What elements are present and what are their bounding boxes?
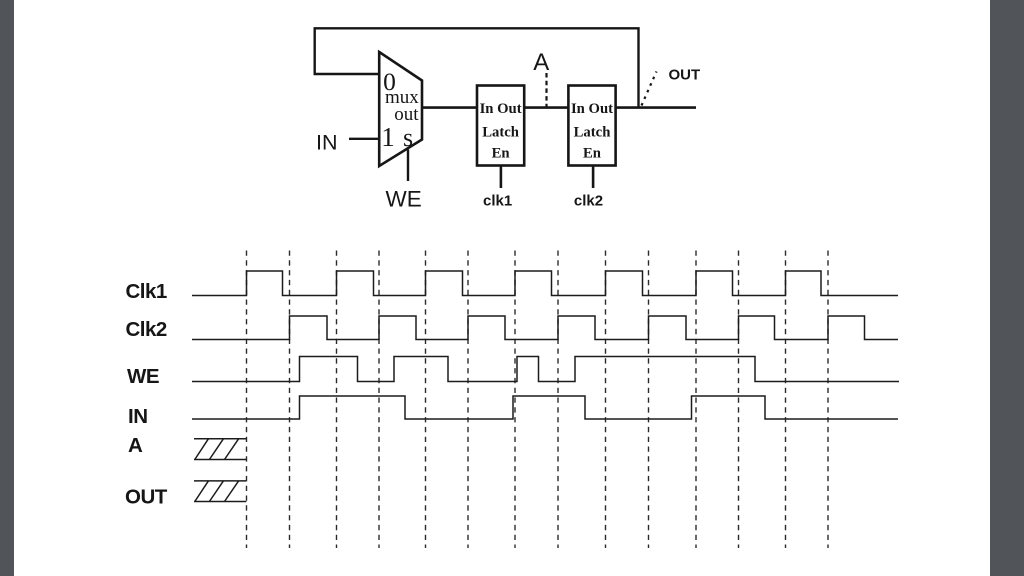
svg-text:En: En <box>492 146 510 162</box>
svg-text:In Out: In Out <box>571 101 613 117</box>
label clk1 <box>483 193 512 210</box>
svg-text:Latch: Latch <box>574 125 611 141</box>
wire latch2 Out to OUT <box>616 106 696 109</box>
mux pin label 0 <box>383 67 396 96</box>
svg-text:OUT: OUT <box>669 67 701 84</box>
wire feedback loop (OUT to mux input 0) <box>315 28 639 107</box>
latch U2 text In Out Latch En <box>480 101 522 162</box>
label Clk1 <box>126 280 167 303</box>
label Clk2 <box>126 318 167 341</box>
label A <box>128 434 143 457</box>
label OUT (node) <box>669 67 701 84</box>
left viewer bar <box>0 0 14 576</box>
wire IN to mux input 1 <box>349 138 379 140</box>
svg-text:clk1: clk1 <box>483 193 512 210</box>
label IN <box>316 131 338 155</box>
svg-text:Clk2: Clk2 <box>126 318 167 341</box>
svg-text:IN: IN <box>316 131 338 155</box>
mux pin label s <box>403 123 413 152</box>
latch U2 box <box>477 86 524 166</box>
right viewer bar <box>990 0 1024 576</box>
svg-text:s: s <box>403 123 413 152</box>
svg-text:WE: WE <box>127 365 159 388</box>
svg-text:OUT: OUT <box>125 486 168 509</box>
label WE <box>386 187 422 212</box>
label clk2 <box>574 193 603 210</box>
svg-text:En: En <box>583 146 601 162</box>
signal IN waveform <box>192 396 898 419</box>
latch U3 box <box>568 86 615 166</box>
svg-text:IN: IN <box>128 405 148 428</box>
label A (node) <box>533 49 549 76</box>
svg-text:out: out <box>394 104 419 125</box>
label WE <box>127 365 159 388</box>
wire clk1 to latch1 En <box>500 166 503 189</box>
signal WE waveform <box>192 357 899 382</box>
svg-text:1: 1 <box>381 122 395 152</box>
node A probe dashed line <box>545 73 547 107</box>
svg-text:clk2: clk2 <box>574 193 603 210</box>
latch U3 text In Out Latch En <box>571 101 613 162</box>
svg-text:Clk1: Clk1 <box>126 280 167 303</box>
wire clk2 to latch2 En <box>592 166 595 189</box>
mux pin label out <box>394 104 419 125</box>
signal OUT unknown-value hatch box <box>194 481 246 502</box>
node OUT probe dotted line <box>642 72 657 106</box>
svg-text:A: A <box>533 49 549 76</box>
mux U1 body <box>379 52 422 166</box>
wire latch1 Out to latch2 In (node A) <box>524 106 568 109</box>
signal A unknown-value hatch box <box>194 439 246 460</box>
signal Clk2 waveform <box>192 316 898 340</box>
mux pin label 1 <box>381 122 395 152</box>
svg-text:A: A <box>128 434 143 457</box>
wire mux out to latch1 In <box>422 106 477 109</box>
wire mux input 0 <box>314 73 379 75</box>
label OUT <box>125 486 168 509</box>
label IN <box>128 405 148 428</box>
mux label mux <box>385 87 419 108</box>
signal Clk1 waveform <box>192 271 898 296</box>
svg-text:Latch: Latch <box>482 125 519 141</box>
svg-text:In Out: In Out <box>480 101 522 117</box>
wire WE to mux select s <box>407 150 409 182</box>
clock edge grid dashed lines <box>247 251 829 549</box>
svg-text:WE: WE <box>386 187 422 212</box>
